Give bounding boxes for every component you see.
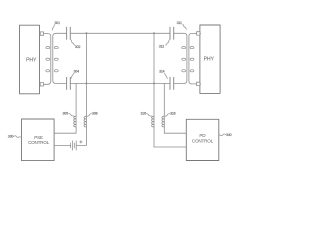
pad left PHY top (40, 32, 44, 35)
transformer T1 left winding (PHY side) (44, 34, 51, 85)
inductor 306 (74, 116, 76, 127)
battery V1 (71, 141, 83, 150)
transformer T1 right winding (line side) (53, 33, 67, 83)
wire PD lower stub (154, 146, 186, 148)
wire PSE upper stub (54, 132, 76, 134)
svg-text:304: 304 (74, 70, 80, 74)
capacitor 302 (67, 27, 71, 39)
label 311 (177, 21, 187, 30)
svg-text:302: 302 (75, 45, 81, 49)
label 314 (159, 70, 167, 79)
svg-text:312: 312 (159, 45, 165, 49)
svg-text:318: 318 (170, 112, 176, 116)
svg-text:314: 314 (159, 70, 165, 74)
label 304 (71, 70, 79, 79)
wire vertical tap B (to inductor 308) (85, 33, 87, 145)
junction dot B bottom (85, 82, 87, 84)
PD CONTROL box 340 (186, 119, 219, 160)
label 316 (141, 112, 153, 117)
inductor 316 (152, 116, 154, 127)
pad right PHY top (197, 32, 201, 35)
svg-text:PHY: PHY (204, 56, 215, 62)
svg-text:340: 340 (226, 133, 232, 137)
svg-text:CONTROL: CONTROL (28, 140, 50, 145)
label 306 (63, 112, 75, 117)
wire vertical tap C (to inductor 316) (153, 33, 155, 147)
label 308 (87, 112, 97, 117)
pad left PHY bottom (40, 83, 44, 86)
junction dot B top (85, 32, 87, 34)
inductor 318 (162, 116, 164, 127)
svg-text:330: 330 (8, 135, 14, 139)
transformer T2 left winding (line side) (174, 33, 187, 83)
svg-text:311: 311 (177, 21, 182, 25)
junction dot C top (153, 32, 155, 34)
PSE CONTROL box 330 (22, 119, 55, 161)
wire battery to inductor 308 (76, 144, 86, 146)
capacitor 312 (170, 27, 174, 39)
inductor 308 (84, 116, 86, 127)
svg-text:CONTROL: CONTROL (192, 138, 214, 143)
wire PD upper stub (164, 132, 186, 134)
label 340 (219, 133, 232, 137)
PHY box U-right (200, 25, 220, 93)
wire vertical tap D (to inductor 318) (163, 83, 165, 133)
wire top rail (70, 32, 170, 34)
svg-text:306: 306 (63, 112, 69, 116)
svg-text:308: 308 (92, 112, 98, 116)
label 301 (52, 21, 60, 30)
PHY box U-left (20, 25, 40, 94)
label 330 (8, 135, 22, 139)
label 318 (165, 112, 175, 117)
svg-text:316: 316 (141, 112, 147, 116)
wire vertical tap A (to inductor 306) (75, 83, 77, 133)
label 312 (159, 40, 170, 49)
capacitor 314 (170, 77, 174, 89)
svg-text:301: 301 (55, 21, 61, 25)
svg-text:PHY: PHY (26, 58, 37, 64)
wire bottom rail (70, 82, 170, 84)
capacitor 304 (67, 77, 71, 89)
junction dot C bottom (153, 82, 155, 84)
label 302 (71, 40, 81, 49)
transformer T2 right winding (PHY side) (189, 33, 197, 84)
svg-text:PD: PD (199, 133, 206, 138)
wire PSE lower stub (54, 144, 70, 146)
pad right PHY bottom (197, 82, 201, 85)
